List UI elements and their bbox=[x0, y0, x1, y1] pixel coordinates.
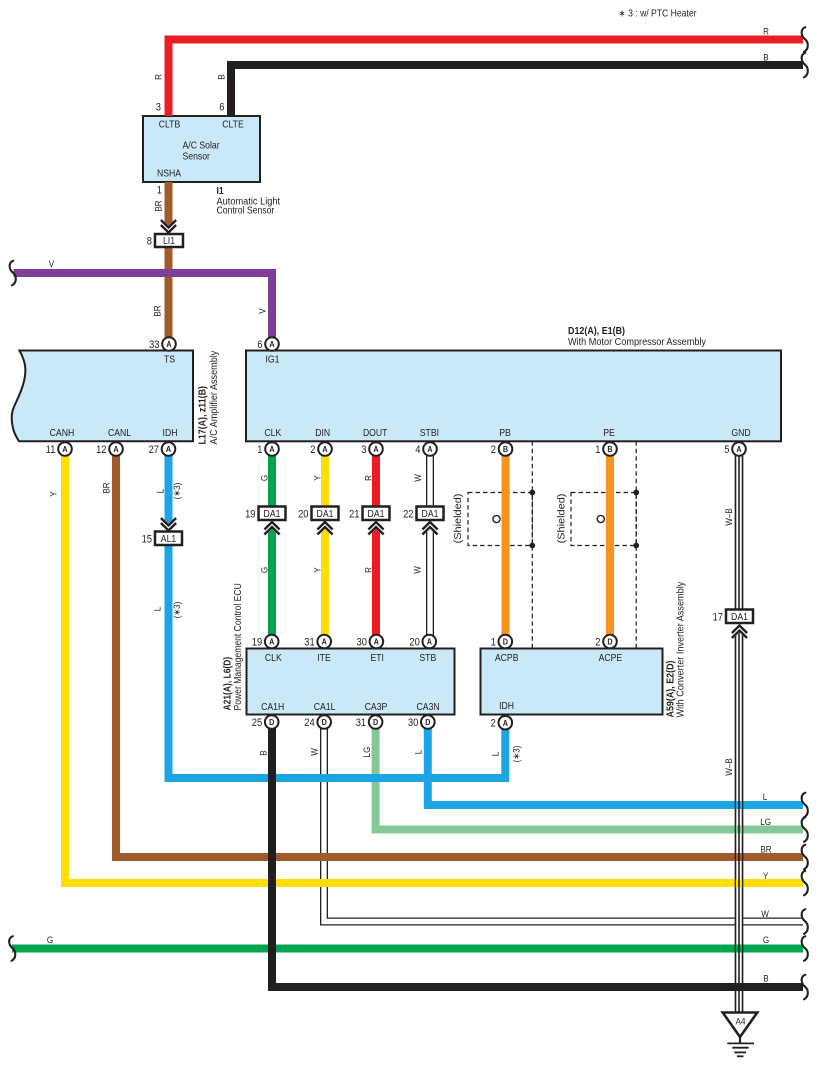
wire L (IDH 27 down through AL1, right, up to converter IDH) bbox=[169, 456, 506, 779]
svg-text:GND: GND bbox=[731, 428, 750, 439]
svg-text:6: 6 bbox=[257, 339, 262, 351]
svg-text:W–B: W–B bbox=[724, 508, 735, 526]
svg-text:DOUT: DOUT bbox=[363, 428, 388, 439]
svg-text:20: 20 bbox=[409, 637, 419, 649]
svg-text:DA1: DA1 bbox=[368, 509, 385, 520]
svg-text:G: G bbox=[260, 567, 271, 573]
pin 2 A DIN bbox=[318, 442, 332, 456]
shield drain dashed line (PE) bbox=[635, 441, 637, 648]
svg-text:12: 12 bbox=[96, 444, 106, 456]
svg-text:W: W bbox=[413, 566, 424, 574]
pin 31 D CA3P bbox=[369, 715, 383, 729]
svg-text:A: A bbox=[166, 444, 171, 454]
connector chevron above AL1 bbox=[161, 521, 176, 529]
svg-text:(Shielded): (Shielded) bbox=[557, 494, 568, 544]
svg-text:19: 19 bbox=[252, 637, 262, 649]
svg-text:LG: LG bbox=[760, 817, 771, 828]
svg-text:2: 2 bbox=[491, 718, 496, 730]
break mark G wire right bbox=[802, 936, 808, 961]
svg-text:IDH: IDH bbox=[499, 701, 514, 712]
pin 25 D CA1H bbox=[265, 715, 279, 729]
svg-text:A: A bbox=[427, 444, 432, 454]
svg-text:B: B bbox=[763, 974, 768, 985]
svg-text:1: 1 bbox=[257, 444, 262, 456]
pin 5 A GND bbox=[732, 442, 746, 456]
svg-text:A: A bbox=[322, 637, 327, 647]
svg-text:30: 30 bbox=[408, 717, 418, 729]
svg-text:25: 25 bbox=[252, 717, 262, 729]
wire R (DOUT to DA1 to ETI) bbox=[372, 456, 380, 636]
svg-text:20: 20 bbox=[298, 508, 308, 520]
pin 2 A converter IDH bbox=[499, 716, 513, 730]
svg-text:DA1: DA1 bbox=[422, 509, 439, 520]
svg-text:PB: PB bbox=[499, 428, 511, 439]
connector chevron below DA1-17 bbox=[732, 628, 747, 636]
svg-text:A: A bbox=[269, 444, 274, 454]
wire L (CA3N down and right to edge) bbox=[428, 729, 803, 806]
break mark Y wire right bbox=[802, 871, 808, 896]
svg-text:LI1: LI1 bbox=[163, 236, 175, 247]
svg-text:A/C Solar: A/C Solar bbox=[183, 141, 221, 152]
svg-text:2: 2 bbox=[310, 444, 315, 456]
pin 2 B PB bbox=[499, 442, 513, 456]
wire G (left edge to right edge, green) bbox=[12, 945, 803, 953]
svg-text:With Motor Compressor Assembly: With Motor Compressor Assembly bbox=[568, 337, 707, 348]
pin 12 A CANL bbox=[109, 442, 123, 456]
pin 19 A ECU CLK bbox=[265, 635, 279, 649]
svg-text:CA3P: CA3P bbox=[365, 702, 388, 713]
svg-text:BR: BR bbox=[154, 200, 165, 211]
connector chevron below DA1-21 bbox=[368, 524, 383, 532]
svg-text:B: B bbox=[763, 53, 768, 64]
svg-text:2: 2 bbox=[491, 444, 496, 456]
pin 33 A on TS bbox=[162, 337, 176, 351]
wire B (solar CLTE up and right to edge) bbox=[231, 65, 803, 116]
svg-text:3: 3 bbox=[156, 102, 161, 114]
wire BR (CANL down to bottom, right to edge) bbox=[116, 456, 803, 858]
svg-text:ACPE: ACPE bbox=[599, 653, 623, 664]
motor compressor assembly block (IG1) bbox=[246, 351, 781, 442]
svg-text:A: A bbox=[374, 637, 379, 647]
pin 30 A ECU ETI bbox=[370, 635, 384, 649]
svg-text:A21(A), L6(D): A21(A), L6(D) bbox=[223, 657, 234, 711]
svg-text:G: G bbox=[47, 935, 53, 946]
break mark LG wire right bbox=[802, 817, 808, 842]
svg-text:R: R bbox=[364, 567, 375, 573]
svg-text:W: W bbox=[761, 909, 769, 920]
svg-text:A: A bbox=[62, 444, 67, 454]
wire LG (CA3P down and right to edge) bbox=[376, 729, 803, 830]
wire V (left edge to IG1 pin 6) bbox=[14, 273, 273, 338]
svg-text:17: 17 bbox=[713, 611, 723, 623]
svg-text:A: A bbox=[427, 637, 432, 647]
pin 1 A CLK bbox=[265, 442, 279, 456]
svg-text:V: V bbox=[258, 308, 269, 314]
svg-text:STBI: STBI bbox=[420, 428, 439, 439]
wire W-B stripe lines bbox=[734, 456, 736, 1014]
pin 1 B PE bbox=[603, 442, 617, 456]
svg-text:L: L bbox=[763, 792, 768, 803]
svg-text:A: A bbox=[322, 444, 327, 454]
svg-text:1: 1 bbox=[491, 637, 496, 649]
svg-text:DA1: DA1 bbox=[731, 612, 748, 623]
shield drain dashed line (PB) bbox=[531, 441, 533, 648]
break mark BR wire right bbox=[802, 845, 808, 870]
pin 31 A ECU ITE bbox=[317, 635, 331, 649]
svg-text:R: R bbox=[154, 74, 165, 80]
svg-text:A: A bbox=[269, 339, 274, 349]
wire W (CA1L down and right to edge, white) bbox=[324, 729, 803, 922]
connector DA1 pin 22 bbox=[417, 507, 444, 521]
junction connector AL1 pin 15 bbox=[155, 532, 182, 546]
svg-text:24: 24 bbox=[304, 717, 314, 729]
wire O (PE to ACPE, orange) bbox=[606, 456, 614, 636]
pin 11 A CANH bbox=[58, 442, 72, 456]
svg-text:LG: LG bbox=[362, 747, 373, 758]
shield box around PB wire bbox=[468, 493, 532, 546]
svg-text:(∗3): (∗3) bbox=[172, 602, 183, 619]
connector chevron below DA1-20 bbox=[317, 524, 332, 532]
svg-text:30: 30 bbox=[357, 637, 367, 649]
svg-text:IG1: IG1 bbox=[266, 355, 280, 366]
svg-text:D: D bbox=[607, 637, 612, 647]
svg-text:Control Sensor: Control Sensor bbox=[217, 206, 275, 217]
svg-text:21: 21 bbox=[349, 508, 359, 520]
svg-text:IDH: IDH bbox=[163, 428, 178, 439]
svg-text:5: 5 bbox=[724, 444, 729, 456]
svg-text:W–B: W–B bbox=[724, 758, 735, 776]
connector DA1 pin 21 bbox=[363, 507, 390, 521]
svg-text:NSHA: NSHA bbox=[157, 169, 181, 180]
power management control ECU block bbox=[247, 649, 455, 715]
svg-text:D: D bbox=[503, 637, 508, 647]
svg-text:31: 31 bbox=[304, 637, 314, 649]
wire Y (CANH down to bottom, right to edge) bbox=[65, 456, 803, 884]
connector chevron above LI1 bbox=[161, 223, 176, 231]
svg-text:D: D bbox=[269, 717, 274, 727]
svg-text:ACPB: ACPB bbox=[495, 653, 519, 664]
junction connector LI1 pin 8 bbox=[155, 234, 183, 247]
svg-text:L: L bbox=[491, 752, 502, 757]
svg-text:Power Management Control ECU: Power Management Control ECU bbox=[233, 583, 244, 710]
svg-text:CLTE: CLTE bbox=[222, 120, 244, 131]
svg-text:BR: BR bbox=[102, 482, 113, 493]
svg-text:I1: I1 bbox=[217, 186, 224, 197]
svg-text:CANH: CANH bbox=[50, 428, 75, 439]
svg-text:6: 6 bbox=[219, 102, 224, 114]
svg-text:1: 1 bbox=[595, 444, 600, 456]
svg-text:BR: BR bbox=[153, 305, 164, 316]
svg-text:Y: Y bbox=[763, 871, 769, 882]
svg-text:Y: Y bbox=[49, 491, 60, 497]
svg-text:2: 2 bbox=[595, 637, 600, 649]
pin 4 A STBI bbox=[423, 442, 437, 456]
svg-text:1: 1 bbox=[157, 185, 162, 197]
wire R (solar CLTB up and right to edge) bbox=[169, 40, 804, 117]
svg-text:CANL: CANL bbox=[108, 428, 131, 439]
svg-text:D12(A), E1(B): D12(A), E1(B) bbox=[568, 326, 625, 337]
ground connector A4 bbox=[723, 1013, 758, 1038]
svg-text:A/C Amplifier Assembly: A/C Amplifier Assembly bbox=[209, 350, 220, 445]
svg-text:DIN: DIN bbox=[315, 428, 330, 439]
svg-text:(∗3): (∗3) bbox=[512, 746, 523, 763]
svg-text:DA1: DA1 bbox=[264, 509, 281, 520]
svg-text:A: A bbox=[736, 444, 741, 454]
break mark R wire right bbox=[802, 27, 808, 52]
pin 24 D CA1L bbox=[317, 715, 331, 729]
svg-text:(Shielded): (Shielded) bbox=[453, 494, 464, 544]
break mark L wire right bbox=[802, 793, 808, 818]
svg-text:ETI: ETI bbox=[370, 653, 384, 664]
svg-text:CLK: CLK bbox=[265, 653, 282, 664]
break mark G wire left bbox=[9, 936, 15, 961]
svg-text:L: L bbox=[414, 750, 425, 755]
pin 2 D ACPE bbox=[603, 635, 617, 649]
svg-text:L: L bbox=[156, 489, 167, 494]
svg-text:19: 19 bbox=[245, 508, 255, 520]
svg-text:Sensor: Sensor bbox=[183, 152, 211, 163]
shield box around PE wire bbox=[571, 493, 636, 546]
svg-text:G: G bbox=[260, 475, 271, 481]
svg-text:W: W bbox=[310, 748, 321, 756]
svg-text:A4: A4 bbox=[736, 1017, 746, 1028]
svg-text:15: 15 bbox=[142, 533, 152, 545]
svg-text:B: B bbox=[259, 750, 270, 755]
svg-text:A: A bbox=[113, 444, 118, 454]
svg-text:TS: TS bbox=[164, 355, 175, 366]
svg-text:CA1H: CA1H bbox=[261, 702, 284, 713]
pin 1 D ACPB bbox=[499, 635, 513, 649]
svg-text:B: B bbox=[217, 74, 228, 79]
svg-text:V: V bbox=[49, 259, 55, 270]
connector chevron below DA1-22 bbox=[422, 524, 437, 532]
svg-text:27: 27 bbox=[149, 444, 159, 456]
svg-text:A: A bbox=[269, 637, 274, 647]
svg-text:CA1L: CA1L bbox=[314, 702, 336, 713]
A/C Solar Sensor block bbox=[143, 116, 260, 182]
svg-text:33: 33 bbox=[149, 339, 159, 351]
svg-text:With Converter Inverter Assemb: With Converter Inverter Assembly bbox=[676, 581, 687, 718]
svg-text:B: B bbox=[503, 444, 508, 454]
svg-text:A: A bbox=[503, 718, 508, 728]
svg-text:4: 4 bbox=[415, 444, 420, 456]
svg-text:CLTB: CLTB bbox=[159, 120, 181, 131]
wire Y (DIN to DA1 to ITE) bbox=[321, 456, 329, 636]
connector DA1 pin 20 bbox=[312, 507, 339, 521]
svg-text:R: R bbox=[763, 27, 769, 38]
svg-text:R: R bbox=[364, 475, 375, 481]
break mark V wire left bbox=[10, 261, 16, 286]
svg-text:Y: Y bbox=[313, 567, 324, 573]
break mark B wire right bottom bbox=[802, 975, 808, 1000]
wire O (PB to ACPB, orange) bbox=[502, 456, 510, 636]
break mark W wire right bbox=[802, 909, 808, 934]
svg-text:DA1: DA1 bbox=[317, 509, 334, 520]
wire W (STBI to DA1 to STB, white) bbox=[426, 456, 434, 636]
svg-text:31: 31 bbox=[356, 717, 366, 729]
svg-text:3: 3 bbox=[361, 444, 366, 456]
svg-text:G: G bbox=[763, 935, 769, 946]
wire B (CA1H down to bottom, right to edge) bbox=[272, 729, 803, 988]
svg-text:D: D bbox=[425, 717, 430, 727]
pin 30 D CA3N bbox=[421, 715, 435, 729]
svg-text:B: B bbox=[607, 444, 612, 454]
svg-text:PE: PE bbox=[603, 428, 615, 439]
pin 6 A on IG1 bbox=[265, 337, 279, 351]
svg-text:A: A bbox=[373, 444, 378, 454]
svg-text:Y: Y bbox=[313, 475, 324, 481]
svg-text:L: L bbox=[153, 607, 164, 612]
connector chevron below DA1-19 bbox=[264, 524, 279, 532]
svg-text:∗ 3 : w/ PTC Heater: ∗ 3 : w/ PTC Heater bbox=[619, 9, 698, 20]
svg-text:D: D bbox=[373, 717, 378, 727]
break mark B wire right bbox=[802, 53, 808, 78]
A/C amplifier assembly block (TS, wavy left edge) bbox=[12, 351, 193, 442]
svg-text:22: 22 bbox=[403, 508, 413, 520]
wire G (CLK to DA1 to ECU CLK) bbox=[268, 456, 276, 636]
converter inverter assembly block bbox=[481, 649, 663, 715]
svg-text:ITE: ITE bbox=[317, 653, 331, 664]
svg-text:W: W bbox=[413, 474, 424, 482]
svg-text:D: D bbox=[322, 717, 327, 727]
svg-text:A: A bbox=[166, 339, 171, 349]
pin 27 A IDH bbox=[162, 442, 176, 456]
pin 3 A DOUT bbox=[369, 442, 383, 456]
svg-text:CLK: CLK bbox=[264, 428, 281, 439]
wire W-B (GND to ground A4, white base) bbox=[735, 456, 743, 1014]
svg-text:AL1: AL1 bbox=[161, 534, 177, 545]
wire BR (solar sensor NSHA down through LI1 to TS pin 33) bbox=[165, 182, 173, 338]
svg-text:11: 11 bbox=[46, 444, 56, 456]
svg-text:STB: STB bbox=[419, 653, 436, 664]
pin 20 A ECU STB bbox=[423, 635, 437, 649]
connector DA1 pin 19 bbox=[259, 507, 286, 521]
earth ground symbol bbox=[739, 1037, 741, 1043]
svg-text:CA3N: CA3N bbox=[417, 702, 440, 713]
svg-text:L17(A), z11(B): L17(A), z11(B) bbox=[198, 386, 209, 444]
svg-text:8: 8 bbox=[147, 236, 152, 248]
svg-text:BR: BR bbox=[760, 845, 771, 856]
svg-text:(∗3): (∗3) bbox=[172, 483, 183, 500]
connector DA1 pin 17 bbox=[726, 610, 753, 624]
